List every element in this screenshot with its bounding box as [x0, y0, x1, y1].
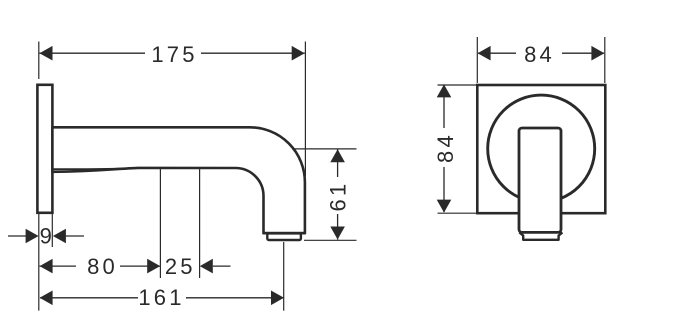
- wire: extension line square left (top, for 84): [476, 37, 478, 83]
- wire: extension line bottom of 61: [304, 239, 357, 241]
- dimension 9: left tail: [8, 235, 26, 237]
- dimension 61 line: [337, 149, 339, 177]
- svg-text:84: 84: [524, 42, 555, 67]
- svg-text:61: 61: [325, 181, 350, 212]
- aerator (side view): [267, 233, 301, 240]
- arrow right of 175: [292, 46, 305, 61]
- arrow right of 9 (pointing left): [53, 229, 66, 244]
- arrow right of 25 (pointing left, outside): [200, 259, 213, 274]
- arrow right of top 84: [591, 46, 604, 61]
- dimension 80 line: [40, 265, 76, 267]
- dimension 175 line: [40, 52, 146, 54]
- wire: extension line square top (left, for 84): [438, 84, 477, 86]
- arrow top of left 84: [437, 84, 452, 97]
- dimension 84 left line: [443, 85, 445, 128]
- wire: extension line aerator centre (for 161): [283, 242, 285, 311]
- spout underside taper line: [52, 168, 138, 169]
- dimension 9: right tail: [66, 235, 84, 237]
- wire: extension line square right (top, for 84): [604, 37, 606, 83]
- dimension 84 top line: [478, 52, 516, 54]
- svg-text:161: 161: [138, 285, 184, 310]
- wire: extension line square bottom (left, for 84): [438, 212, 477, 214]
- arrow top of 61: [330, 149, 345, 162]
- wire: extension line wall plane (top, for 175): [38, 42, 40, 80]
- arrow left of 80 (pointing left): [40, 259, 53, 274]
- wall plate: [37, 85, 52, 213]
- arrow left of 9 (pointing right): [26, 229, 39, 244]
- arrow left of 175: [40, 46, 53, 61]
- aerator (front view): [519, 232, 562, 239]
- wire: extension line 80/25 boundary: [159, 169, 161, 278]
- arrow left of top 84: [478, 46, 491, 61]
- arrow bottom of left 84: [437, 200, 452, 213]
- spout bottom line at outlet: [264, 232, 305, 235]
- escutcheon square: [477, 85, 605, 213]
- svg-text:80: 80: [87, 254, 118, 279]
- wire: extension line wall plane (bottom, for 9/80/161): [38, 213, 40, 311]
- wire: extension line top of 61: [292, 148, 357, 150]
- dimension 161 line: [40, 297, 138, 299]
- svg-text:84: 84: [433, 132, 458, 163]
- svg-text:25: 25: [165, 254, 196, 279]
- svg-text:175: 175: [151, 42, 197, 67]
- dimension 25: right tail: [213, 265, 231, 267]
- spout front rectangle: [519, 128, 561, 232]
- svg-text:9: 9: [40, 224, 55, 249]
- wire: extension line spout tip (right, for 175): [304, 42, 306, 177]
- arrow right of 80 (pointing right): [147, 259, 160, 274]
- arrow left of 161 (pointing left): [40, 291, 53, 306]
- spout body outline: [52, 127, 305, 233]
- wire: extension line right of 25: [199, 169, 201, 278]
- arrow bottom of 61: [330, 227, 345, 240]
- arrow right of 161 (pointing right): [271, 291, 284, 306]
- wire: extension line plate front (for 9): [51, 213, 53, 247]
- escutcheon circle: [488, 95, 595, 202]
